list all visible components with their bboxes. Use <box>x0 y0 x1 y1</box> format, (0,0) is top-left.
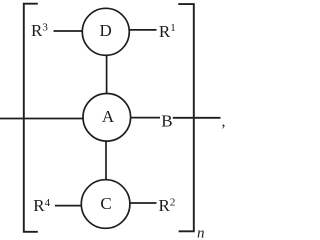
svg-text:R2: R2 <box>159 196 176 215</box>
circle D <box>82 8 129 55</box>
svg-text:R1: R1 <box>159 22 176 41</box>
wire B to right through bracket <box>173 117 221 119</box>
wire left edge to A through bracket <box>0 118 83 120</box>
bond A-B <box>131 117 160 119</box>
right bracket <box>178 4 194 231</box>
bond C-R2 <box>130 202 157 204</box>
bond D-R1 <box>129 29 156 31</box>
svg-text:R4: R4 <box>33 196 50 215</box>
bond R3-D <box>54 30 83 32</box>
left bracket <box>24 4 38 232</box>
bond D-A vertical <box>106 55 108 93</box>
bond R4-C <box>55 205 82 207</box>
svg-text:A: A <box>102 107 115 126</box>
svg-text:R3: R3 <box>31 21 48 40</box>
circle C <box>81 180 130 229</box>
bond A-C vertical <box>105 141 107 180</box>
svg-text:B: B <box>161 111 172 130</box>
svg-text:,: , <box>222 113 226 130</box>
svg-text:D: D <box>99 21 111 40</box>
svg-text:n: n <box>197 226 205 240</box>
circle A <box>83 94 131 142</box>
svg-text:C: C <box>100 194 111 213</box>
